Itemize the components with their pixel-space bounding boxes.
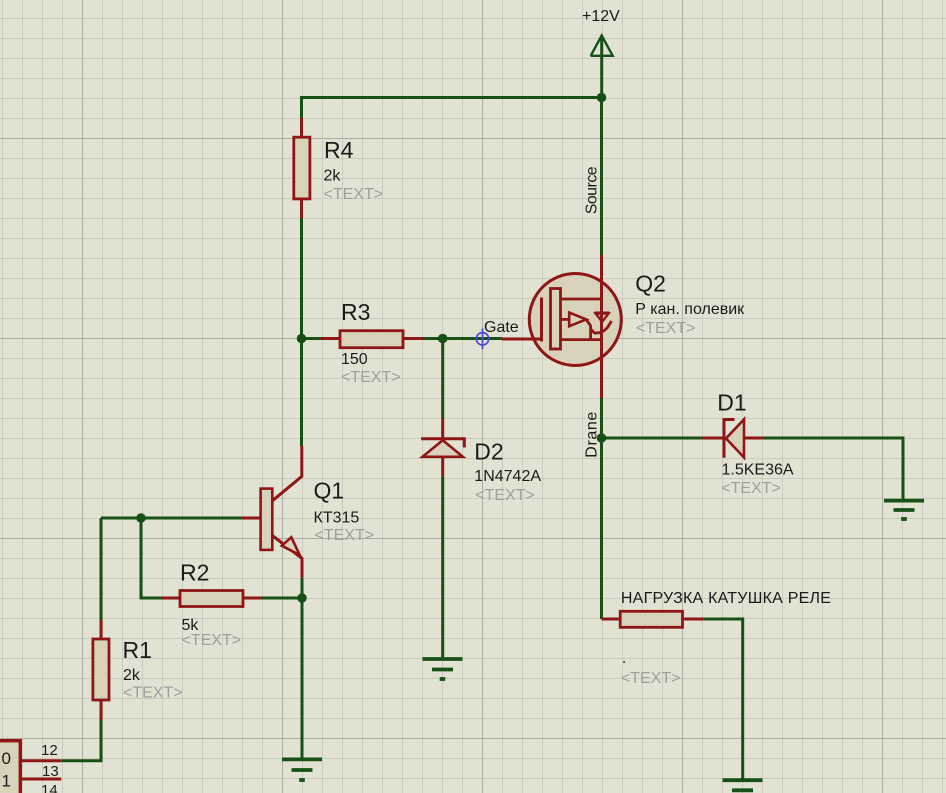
wire gate segment bbox=[443, 337, 502, 340]
svg-text:.: . bbox=[622, 650, 626, 667]
svg-text:D1: D1 bbox=[717, 390, 746, 416]
svg-text:D2: D2 bbox=[474, 439, 503, 465]
svg-text:Gate: Gate bbox=[484, 319, 519, 336]
svg-text:1N4742A: 1N4742A bbox=[474, 468, 541, 485]
junction node at R4/R3 bbox=[297, 334, 307, 344]
svg-text:КТ315: КТ315 bbox=[314, 510, 360, 527]
resistor R4 bbox=[294, 118, 310, 218]
gate node terminal bbox=[476, 328, 488, 349]
svg-text:R4: R4 bbox=[324, 137, 354, 163]
resistor R2 bbox=[161, 591, 262, 607]
wire emitter stub bbox=[301, 577, 304, 598]
svg-text:2k: 2k bbox=[324, 168, 342, 185]
zener diode D2 bbox=[421, 418, 464, 477]
power +12V bbox=[591, 36, 613, 98]
svg-text:1: 1 bbox=[2, 772, 11, 791]
svg-text:14: 14 bbox=[41, 782, 58, 793]
wire drain node to D1 bbox=[602, 437, 704, 440]
wire load right to corner and down bbox=[704, 619, 743, 779]
wire +12V to Q2 source bbox=[600, 98, 603, 256]
wire base rail bbox=[101, 517, 242, 520]
ground below load bbox=[723, 780, 763, 790]
ground below D2 bbox=[423, 659, 463, 679]
svg-text:<TEXT>: <TEXT> bbox=[621, 670, 681, 687]
svg-text:Drane: Drane bbox=[584, 412, 601, 458]
wire left vertical to R1 bbox=[100, 518, 103, 620]
svg-text:0: 0 bbox=[2, 749, 11, 768]
wire node down to D2 bbox=[441, 339, 444, 419]
resistor R3 bbox=[321, 331, 424, 348]
junction node at +12V rail bbox=[597, 93, 607, 103]
diode D1 bbox=[702, 419, 763, 457]
wire emitter node down to ground bbox=[301, 598, 304, 758]
svg-text:НАГРУЗКА КАТУШКА РЕЛЕ: НАГРУЗКА КАТУШКА РЕЛЕ bbox=[621, 590, 831, 607]
mosfet Q2 bbox=[502, 255, 621, 398]
ground below emitter bbox=[282, 759, 322, 780]
svg-text:<TEXT>: <TEXT> bbox=[324, 186, 384, 203]
load resistor RL bbox=[602, 611, 704, 627]
wire D2 anode to ground bbox=[441, 477, 444, 659]
wire R3 right to node bbox=[423, 337, 443, 340]
svg-text:R1: R1 bbox=[123, 637, 152, 663]
wire top rail from R4 to +12V column bbox=[302, 96, 602, 99]
junction node at emitter bbox=[297, 593, 307, 603]
junction node at drain bbox=[597, 433, 607, 443]
svg-text:<TEXT>: <TEXT> bbox=[182, 632, 242, 649]
svg-text:<TEXT>: <TEXT> bbox=[721, 480, 781, 497]
wire Q2 drain stub bbox=[600, 398, 603, 438]
svg-text:1.5KE36A: 1.5KE36A bbox=[722, 462, 794, 479]
wire drain node down to load bbox=[600, 438, 603, 619]
svg-text:Source: Source bbox=[584, 166, 601, 214]
svg-text:2k: 2k bbox=[123, 667, 141, 684]
junction node at base rail bbox=[136, 513, 146, 523]
wire R4 top stub bbox=[300, 96, 303, 118]
svg-text:Q1: Q1 bbox=[314, 478, 345, 504]
wire R2 right to emitter node bbox=[262, 597, 303, 600]
resistor R1 bbox=[93, 620, 109, 720]
connector J1 bbox=[0, 741, 61, 793]
wire collector stub down from node bbox=[300, 338, 303, 446]
wire D1 right to corner bbox=[762, 438, 903, 499]
wire base node down to R2 bbox=[141, 518, 161, 598]
svg-text:<TEXT>: <TEXT> bbox=[315, 527, 375, 544]
svg-text:R2: R2 bbox=[180, 560, 209, 586]
wire R1 bottom to corner to pin12 bbox=[61, 720, 101, 761]
svg-text:12: 12 bbox=[41, 742, 58, 759]
svg-text:<TEXT>: <TEXT> bbox=[475, 487, 535, 504]
svg-text:Q2: Q2 bbox=[635, 271, 666, 297]
svg-text:Р кан. полевик: Р кан. полевик bbox=[635, 301, 745, 318]
ground right of D1 bbox=[884, 501, 924, 519]
wire R4 bottom to node bbox=[300, 218, 303, 338]
junction node at R3/D2 bbox=[438, 334, 448, 344]
transistor Q1 bbox=[242, 446, 302, 577]
svg-text:<TEXT>: <TEXT> bbox=[341, 369, 401, 386]
svg-text:150: 150 bbox=[341, 351, 368, 368]
svg-text:<TEXT>: <TEXT> bbox=[636, 320, 696, 337]
svg-text:R3: R3 bbox=[341, 299, 370, 325]
svg-text:13: 13 bbox=[42, 763, 59, 780]
svg-text:<TEXT>: <TEXT> bbox=[123, 685, 183, 702]
wire node to R3 left bbox=[302, 337, 321, 340]
svg-text:+12V: +12V bbox=[582, 8, 620, 25]
